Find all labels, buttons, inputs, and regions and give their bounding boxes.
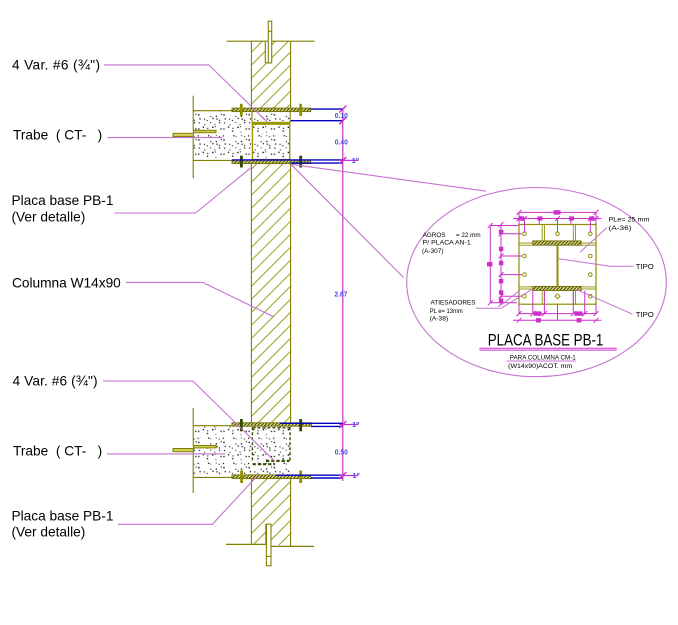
column W14x90 hatch lower segment [251, 479, 290, 547]
label: Placa base PB-1 (Ver detalle) top [12, 193, 114, 224]
label PL e=25mm [609, 217, 651, 233]
trabe CT bottom: bottom edge [193, 476, 232, 478]
svg-text:(A-38): (A-38) [430, 316, 449, 323]
leader TIPO bottom [576, 289, 632, 314]
svg-text:Placa base PB-1: Placa base PB-1 [12, 193, 114, 208]
leader for 4 Var bottom [103, 381, 275, 461]
svg-text:P/ PLACA AN-1: P/ PLACA AN-1 [423, 239, 471, 246]
leader PL e=25mm [580, 228, 607, 253]
leader for Trabe bottom [107, 453, 225, 455]
leader for Placa base top [114, 167, 252, 213]
detail dim bottom 2 [513, 304, 602, 323]
bolt row extension lines [501, 234, 522, 296]
leader for Columna [126, 282, 274, 317]
label: Placa base PB-1 (Ver detalle) bottom [12, 508, 114, 539]
blue projection lines top beam [232, 109, 343, 163]
svg-text:0.50: 0.50 [335, 448, 348, 457]
web [557, 245, 559, 286]
anchor bolt holes [523, 232, 592, 299]
leader TIPO middle [559, 259, 634, 267]
subtitle divider [507, 360, 577, 362]
column edges through top beam [251, 112, 253, 123]
svg-text:(Ver detalle): (Ver detalle) [12, 525, 86, 540]
trabe CT bottom: connection plate (Z step) [173, 446, 216, 452]
column W14x90 hatch upper segment [251, 41, 290, 108]
svg-text:0.40: 0.40 [335, 137, 348, 146]
trabe CT top: upper slab bar (hatched) [232, 108, 311, 112]
detail balloon leader upper [291, 164, 486, 191]
label AGROS anchor note [422, 232, 481, 255]
svg-text:(A-307): (A-307) [422, 248, 444, 255]
detail dim left inner (bolt spacing) [499, 222, 504, 307]
bottom flange lines [519, 287, 596, 289]
trabe CT bottom: base plate hidden edges (dashed) [253, 461, 290, 464]
trabe CT top: concrete fill [193, 112, 290, 161]
svg-text:Columna W14x90: Columna W14x90 [12, 276, 121, 291]
leader for Placa base bottom [118, 476, 257, 524]
trabe CT bottom: embedded column section (hidden, dashed) [252, 427, 290, 462]
trabe CT top: lower bar ticks (dark) [240, 156, 302, 168]
detail dim top 2 [513, 216, 602, 232]
trabe CT top: connection plate (Z step) [173, 130, 216, 136]
trabe CT bottom: concrete fill [193, 426, 290, 475]
trabe CT top: lower slab bar (hatched) [232, 160, 311, 164]
svg-text:4 Var. #6 (¾"): 4 Var. #6 (¾") [12, 58, 100, 74]
dimension texts [334, 111, 360, 480]
svg-text:(W14x90)ACOT. mm: (W14x90)ACOT. mm [508, 363, 572, 370]
svg-text:1": 1" [352, 156, 359, 165]
blue projection lines bottom beam [276, 423, 343, 478]
trabe CT bottom: top edge [193, 425, 232, 427]
detail dim top 1 [517, 210, 599, 225]
svg-text:1": 1" [352, 420, 359, 429]
trabe CT top: embedded column section with cap plate [252, 123, 289, 160]
bottom base line left [226, 543, 266, 545]
svg-text:TIPO: TIPO [636, 262, 654, 271]
svg-text:2.67: 2.67 [334, 290, 347, 299]
detail balloon ellipse [407, 188, 667, 377]
label ATIESADORES note [430, 300, 476, 323]
stiffener plates [542, 225, 575, 305]
trabe CT top: bottom edge [193, 159, 232, 161]
trabe CT bottom: lower slab bar (hatched) [232, 475, 311, 479]
svg-text:AGROS = 22 mm: AGROS = 22 mm [423, 232, 481, 239]
bottom base line right [271, 545, 314, 547]
column W14x90 hatch middle segment [251, 164, 290, 423]
svg-text:PLACA BASE PB-1: PLACA BASE PB-1 [488, 332, 604, 350]
trabe CT bottom: upper bar ticks (dark) [240, 419, 302, 431]
svg-text:1": 1" [353, 471, 360, 480]
svg-text:PLe= 25 mm: PLe= 25 mm [609, 217, 651, 224]
trabe CT bottom: left boundary line [192, 408, 194, 446]
floor line at column top [227, 40, 315, 42]
plate thickness stubs 1" [340, 160, 359, 475]
trabe CT top: left boundary line [192, 96, 194, 131]
trabe CT bottom: lower bar ticks [240, 471, 302, 484]
bottom rebar (vertical bar) [266, 524, 271, 566]
svg-text:(Ver detalle): (Ver detalle) [12, 209, 86, 224]
leader for 4 Var top [104, 65, 269, 123]
svg-text:Trabe ( CT- ): Trabe ( CT- ) [13, 443, 102, 458]
svg-text:TIPO: TIPO [636, 310, 654, 319]
base plate PB-1 outline [519, 225, 596, 305]
dimension chain vertical line [342, 109, 344, 481]
detail dim bottom 1 [517, 291, 599, 316]
top rebar slot [265, 42, 271, 63]
bottom flange (hatched) [533, 286, 581, 290]
svg-text:0.10: 0.10 [335, 111, 348, 120]
top flange lines [519, 243, 596, 245]
svg-text:Trabe ( CT- ): Trabe ( CT- ) [13, 128, 102, 143]
detail balloon leader lower [291, 164, 404, 277]
detail dim left outer [488, 223, 519, 305]
svg-text:Placa base PB-1: Placa base PB-1 [12, 508, 114, 523]
svg-text:ATIESADORES: ATIESADORES [431, 300, 477, 307]
top flange (hatched) [533, 241, 581, 245]
trabe CT top: top edge [193, 110, 232, 112]
dimension ticks [339, 106, 346, 479]
bottom rebar slot [266, 524, 272, 546]
title underline double [479, 348, 616, 350]
svg-text:(A-36): (A-36) [609, 225, 632, 232]
trabe CT bottom: upper slab bar (hatched) [232, 423, 311, 426]
svg-text:4 Var. #6 (¾"): 4 Var. #6 (¾") [13, 374, 98, 390]
leaders ATIESADORES [476, 290, 532, 309]
svg-text:PL e= 13mm: PL e= 13mm [430, 308, 463, 315]
top rebar (vertical bar with splice tick) [268, 21, 271, 63]
svg-text:PARA COLUMNA CM-1: PARA COLUMNA CM-1 [510, 354, 576, 361]
trabe CT top: upper bar ticks [240, 104, 302, 116]
leader for Trabe top [108, 137, 223, 139]
